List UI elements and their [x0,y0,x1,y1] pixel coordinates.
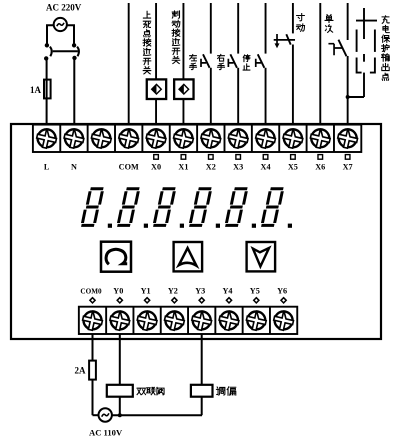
svg-text:2A: 2A [75,366,87,376]
indicator diamond Y3 [199,298,204,303]
svg-text:X5: X5 [288,163,298,172]
label double valve [137,387,164,395]
terminal screw bottom COM0 [81,309,104,332]
pushbutton stop [256,54,265,67]
indicator mark X3 [236,155,241,160]
wire X3 [237,3,239,54]
wire X7 [347,3,349,40]
indicator mark X0 [154,155,159,160]
indicator diamond Y2 [172,298,177,303]
proximity switch B1 [147,79,166,99]
terminal screw top X3 [227,127,250,150]
svg-text:1A: 1A [30,85,42,95]
svg-text:Y6: Y6 [277,287,287,296]
terminal screw bottom Y4 [217,309,240,332]
indicator mark X1 [181,155,186,160]
svg-text:Y3: Y3 [195,287,205,296]
svg-text:X6: X6 [315,163,325,172]
junction X7 [346,95,350,99]
label left hand [189,54,196,69]
PLC controller body outline [11,124,381,339]
proximity switch B2 [174,79,193,99]
junction [118,413,122,417]
top terminal strip frame [33,125,361,152]
terminal screw top X5 [281,127,304,150]
label trim adjust [216,387,235,395]
jog switch [274,34,295,48]
svg-text:Y1: Y1 [141,287,151,296]
svg-text:COM0: COM0 [80,288,102,296]
indicator mark X4 [263,155,268,160]
button up arrow [174,242,203,271]
wire X4 [265,3,267,54]
label charge protection output [382,16,390,80]
indicator mark X6 [318,155,323,160]
wire X6 [319,3,321,125]
bottom terminal labels [80,287,287,296]
indicator mark X7 [345,155,350,160]
svg-text:Y2: Y2 [168,287,178,296]
charge-protection relay output contact [348,8,377,97]
terminal screw top N [62,127,85,150]
terminal screw top spare [90,127,113,150]
7-segment display 8.8.8.8.8.8. [80,187,112,228]
button reset (circular arrow) [101,242,131,272]
pushbutton right hand [228,54,237,67]
indicator diamond Y0 [117,298,122,303]
fuse F1 1A [44,80,51,99]
valve coil (double valve) [107,385,133,397]
wire X0 with proximity switch [155,3,157,80]
svg-text:X7: X7 [343,163,353,172]
indicator mark X5 [291,155,296,160]
svg-text:N: N [71,163,77,172]
terminal screw top X2 [199,127,222,150]
wire switch to fuse to L [46,60,48,125]
button down arrow [247,242,276,271]
terminal screw bottom Y3 [190,309,213,332]
AC source 220V [54,18,67,31]
svg-text:X1: X1 [178,163,188,172]
indicator diamond Y1 [145,298,150,303]
terminal screw bottom Y2 [163,309,186,332]
terminal screw top X7 [336,127,359,150]
terminal screw top X4 [254,127,277,150]
top terminal labels [44,163,353,172]
svg-text:X3: X3 [233,163,243,172]
indicator diamond Y6 [281,298,286,303]
wire X5 [292,3,294,33]
wire COM input [128,3,130,125]
wire X1 with proximity switch [182,3,184,80]
fuse F2 2A [89,361,96,380]
svg-text:X0: X0 [151,163,161,172]
wire AC to switch left [47,25,54,44]
wire AC110 to valves [112,414,202,416]
single-cycle selector switch [328,40,346,57]
svg-text:L: L [44,163,50,172]
svg-text:AC 110V: AC 110V [89,428,123,438]
svg-text:AC 220V: AC 220V [46,3,82,13]
label right hand [217,54,224,69]
indicator diamond COM0 [90,298,95,303]
label jog [296,14,304,32]
terminal screw top X6 [309,127,332,150]
AC source 110V [93,414,99,416]
bottom terminal strip frame [79,307,297,334]
terminal screw bottom Y1 [135,309,158,332]
terminal screw top X0 [144,127,167,150]
svg-text:X4: X4 [261,163,271,172]
terminal screw bottom Y6 [272,309,295,332]
svg-text:Y0: Y0 [113,287,123,296]
label stop [243,55,250,70]
wire switch to N [73,59,75,125]
indicator mark X2 [209,155,214,160]
svg-text:X2: X2 [206,163,216,172]
svg-text:COM: COM [119,163,139,172]
terminal screw bottom Y5 [245,309,268,332]
label single cycle [325,15,333,33]
svg-text:Y4: Y4 [222,287,232,296]
svg-text:Y5: Y5 [250,287,260,296]
wire AC to switch right [67,25,74,44]
indicator diamond Y4 [226,298,231,303]
DPST switch SW1 [45,44,79,61]
wire X2 [210,3,212,54]
terminal screw top L [35,127,58,150]
trim coil [191,385,213,397]
terminal screw top COM [117,127,140,150]
label brake proximity switch [172,11,180,64]
pushbutton left hand [201,54,210,67]
wire COM0 down [92,334,94,361]
wire Y0 down [119,334,121,385]
wire Y3 down [201,334,203,385]
indicator diamond Y5 [254,298,259,303]
label upper-dead-point proximity switch [143,11,151,74]
terminal screw bottom Y0 [108,309,131,332]
terminal screw top X1 [172,127,195,150]
